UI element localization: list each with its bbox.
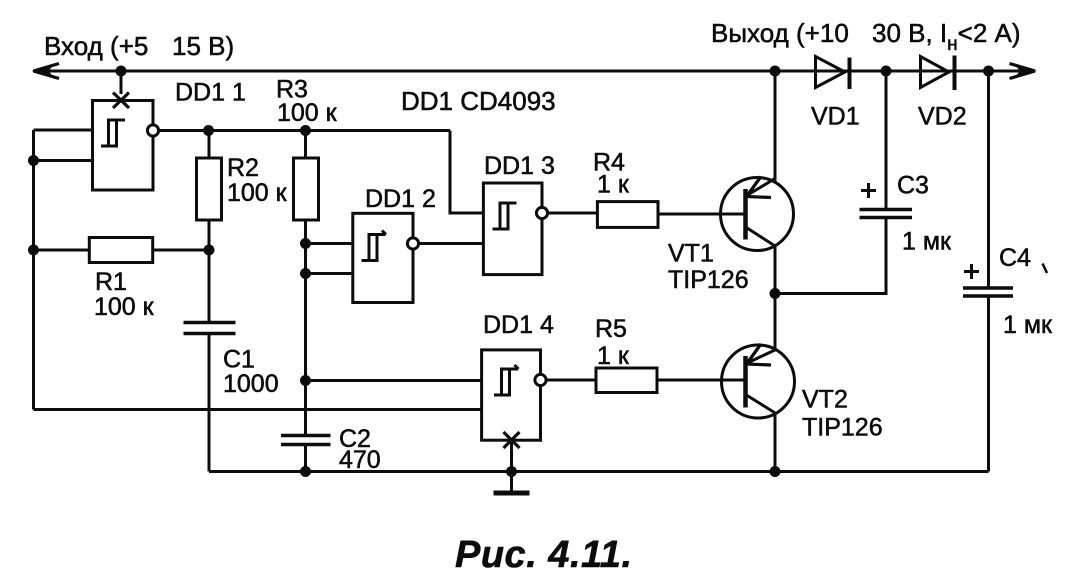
svg-text:R1: R1 [95, 268, 127, 296]
diode VD1 triangle [816, 57, 846, 88]
wire C2 bottom lead [304, 445, 307, 472]
node junction dot input rail / DD1.1 supply [116, 66, 127, 77]
node junction dot DD1.4 ground [506, 466, 517, 477]
svg-text:DD1 2: DD1 2 [365, 185, 436, 213]
wire DD1.2 output to DD1.3 input 2 [418, 242, 483, 245]
op-amp U1 gate DD1.1 box [93, 101, 154, 191]
capacitor C3 plus sign [861, 183, 876, 198]
svg-text:1 мк: 1 мк [1003, 311, 1053, 339]
wire DD1.3 output to R4 [547, 212, 597, 215]
svg-text:VD1: VD1 [811, 103, 860, 131]
op-amp U1 gate DD1.1 hysteresis symbol [101, 120, 125, 146]
resistor R1 [89, 238, 152, 263]
wire R5 to VT2 base [657, 379, 746, 382]
svg-text:C4: C4 [999, 244, 1031, 272]
node X mark on DD1.1 top pin [113, 93, 129, 109]
op-amp U2 gate DD1.2 output bubble [407, 238, 418, 249]
svg-text:VD2: VD2 [918, 103, 967, 131]
svg-text:Вход (+5: Вход (+5 [44, 31, 148, 61]
wire R4 to VT1 base [658, 213, 746, 216]
capacitor C3 top plate [860, 208, 913, 212]
op-amp U3 gate DD1.3 hysteresis symbol [493, 203, 517, 229]
node junction dot VT1 emitter rail [770, 66, 781, 77]
wire DD1.4 input 1 [306, 379, 482, 382]
diode VD2 cathode bar [953, 56, 957, 91]
wire DD1.1 input 1 [34, 129, 93, 132]
svg-text:470: 470 [339, 446, 381, 474]
svg-text:100 к: 100 к [94, 293, 155, 321]
wire ground rail [209, 470, 989, 473]
wire left feedback rail [32, 130, 35, 410]
svg-text:TIP126: TIP126 [802, 414, 883, 442]
svg-text:DD1 1: DD1 1 [175, 79, 246, 107]
op-amp U2 gate DD1.2 hysteresis symbol [362, 231, 387, 261]
wire DD1.2 input 2 [306, 272, 353, 275]
wire C1 bottom lead to ground rail [208, 334, 211, 472]
wire DD1.3 input 1 from R3 node [450, 131, 483, 214]
wire DD1.4 ground stub [510, 440, 513, 472]
wire DD1.1 output line [158, 129, 450, 132]
op-amp U4 gate DD1.4 output bubble [535, 374, 546, 385]
resistor R4 [597, 202, 658, 228]
wire VT1 emitter to rail [774, 71, 777, 182]
wire C4 top lead [987, 71, 990, 288]
transistor Q2 VT2 collector line [746, 395, 777, 414]
node X mark on DD1.4 bottom pin [504, 432, 520, 448]
transistor Q1 VT1 base bar [743, 189, 748, 240]
wire DD1.1 input 2 [34, 159, 93, 162]
wire R2 top lead [208, 131, 211, 159]
svg-text:Выход (+10: Выход (+10 [711, 18, 849, 48]
wire midpoint node to C3 bottom [775, 218, 886, 294]
svg-text:R2: R2 [227, 154, 259, 182]
wire C4 bottom lead to ground rail [987, 296, 990, 472]
wire R3 bottom vertical to C2 [304, 220, 307, 436]
svg-text:30 В, Iн<2 А): 30 В, Iн<2 А) [872, 18, 1021, 55]
node junction dot DD1.2 input 2 [300, 268, 311, 279]
svg-text:100 к: 100 к [277, 99, 338, 127]
op-amp U3 gate DD1.3 output bubble [536, 207, 547, 218]
resistor R3 [294, 158, 319, 220]
resistor R5 [596, 368, 657, 393]
wire VT1 collector down [774, 246, 777, 294]
wire top supply rail [33, 70, 1035, 73]
resistor R2 [197, 158, 222, 220]
node junction dot VT2 collector ground [770, 466, 781, 477]
node junction dot DD1.1 input 2 [28, 155, 39, 166]
svg-text:C3: C3 [897, 172, 929, 200]
wire R2 bottom lead to C1 [208, 220, 211, 323]
svg-text:DD1 CD4093: DD1 CD4093 [401, 86, 556, 116]
svg-text:DD1 3: DD1 3 [484, 152, 555, 180]
node junction dot C3 top rail [881, 66, 892, 77]
op-amp U4 gate DD1.4 hysteresis symbol [494, 365, 519, 395]
node junction dot VT1 collector / VT2 emitter / C3 [770, 288, 781, 299]
svg-text:VT2: VT2 [802, 386, 848, 414]
capacitor C1 top plate [184, 321, 236, 325]
node stray tick near C4 [1043, 264, 1048, 274]
node junction dot R1 left [28, 245, 39, 256]
capacitor C4 bottom plate [963, 294, 1013, 298]
op-amp U4 gate DD1.4 box [482, 350, 541, 440]
svg-text:100 к: 100 к [227, 179, 288, 207]
transistor Q1 VT1 circle [721, 178, 794, 251]
wire R1 left lead [34, 249, 90, 252]
capacitor C2 top plate [281, 434, 331, 438]
diode VD1 cathode bar [848, 58, 852, 90]
svg-text:1 мк: 1 мк [902, 228, 952, 256]
transistor Q2 VT2 circle [722, 345, 795, 418]
transistor Q2 VT2 emitter arrow [747, 344, 772, 365]
capacitor C3 bottom plate [860, 216, 913, 220]
ground symbol bar [494, 491, 530, 496]
node junction dot DD1.2 input 1 [300, 238, 311, 249]
wire VT2 collector to ground rail [774, 413, 777, 471]
transistor Q1 VT1 emitter line [746, 179, 775, 197]
transistor Q2 VT2 base bar [743, 356, 748, 408]
node junction dot R2 top [203, 125, 214, 136]
capacitor C1 bottom plate [184, 332, 236, 336]
op-amp U3 gate DD1.3 box [483, 183, 542, 275]
wire DD1.4 output to R5 [546, 379, 596, 382]
wire DD1.2 input 1 [306, 242, 353, 245]
svg-text:VT1: VT1 [668, 240, 714, 268]
svg-text:1 к: 1 к [597, 171, 630, 199]
svg-text:R5: R5 [595, 315, 627, 343]
capacitor C4 top plate [963, 286, 1013, 290]
transistor Q1 VT1 emitter arrow [747, 177, 772, 198]
op-amp U1 gate DD1.1 output bubble [147, 125, 158, 136]
wire R3 top lead [304, 131, 307, 159]
wire VT2 emitter up to midpoint node [774, 294, 777, 350]
transistor Q2 VT2 emitter line [746, 350, 776, 364]
ground symbol stem [510, 472, 513, 492]
op-amp U2 gate DD1.2 box [353, 213, 413, 302]
capacitor C4 plus sign [964, 264, 979, 279]
svg-text:TIP126: TIP126 [668, 266, 749, 294]
svg-text:15 В): 15 В) [172, 31, 234, 61]
transistor Q1 VT1 collector line [746, 227, 776, 246]
node junction dot C4 top rail [983, 66, 994, 77]
node junction dot R1/R2/C1 [204, 245, 215, 256]
wire C3 top lead [885, 71, 888, 210]
svg-text:DD1 4: DD1 4 [483, 311, 554, 339]
wire DD1.4 input 2 from left rail [34, 408, 482, 411]
svg-text:1 к: 1 к [597, 342, 630, 370]
svg-text:1000: 1000 [223, 370, 279, 398]
node left arrowhead of input rail [34, 64, 60, 79]
capacitor C2 bottom plate [281, 443, 331, 447]
svg-text:Рис. 4.11.: Рис. 4.11. [455, 534, 633, 576]
wire R1 right lead [153, 249, 209, 252]
diode VD2 triangle [921, 57, 950, 88]
wire DD1.1 supply stub [120, 71, 123, 94]
node junction dot DD1.4 input 1 tap [300, 375, 311, 386]
node junction dot C2 ground [300, 466, 311, 477]
node junction dot R3 top [300, 125, 311, 136]
node right arrowhead of output rail [1010, 64, 1036, 79]
